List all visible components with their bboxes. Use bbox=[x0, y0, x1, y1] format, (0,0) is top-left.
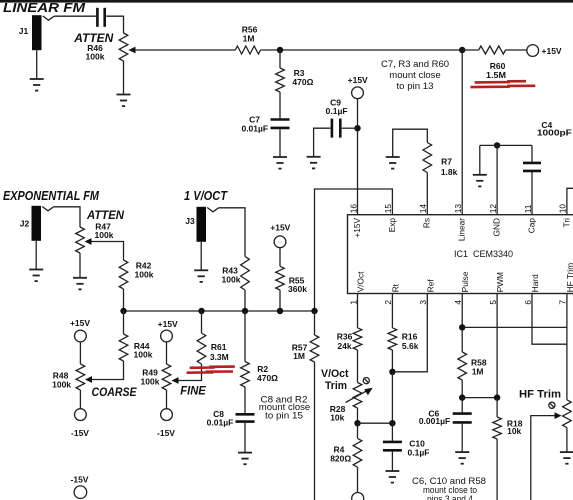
-15V terminal (floating, bottom left) bbox=[74, 486, 87, 499]
node E junction (Pulse) bbox=[459, 324, 465, 330]
label R60 value bbox=[486, 70, 506, 80]
potentiometer R47 bbox=[76, 227, 85, 253]
label R18 bbox=[507, 419, 523, 429]
svg-text:470Ω: 470Ω bbox=[257, 373, 278, 383]
pin 4 label Pulse bbox=[460, 271, 470, 292]
svg-text:0.1µF: 0.1µF bbox=[408, 447, 430, 457]
label R2 bbox=[257, 364, 268, 374]
resistor R58 bbox=[458, 352, 467, 380]
wire node B to R4 bbox=[357, 423, 359, 438]
wire R47 wiper to R42 bbox=[92, 242, 124, 261]
wire node F to node G bbox=[462, 397, 497, 399]
wire pin 12 bbox=[496, 145, 498, 214]
wire R61 to R49 wiper bbox=[179, 364, 202, 381]
pin 3 label Ref bbox=[425, 279, 435, 293]
label V/Oct Trim line 2 bbox=[325, 380, 347, 392]
wire node C to C10 bbox=[391, 423, 393, 441]
svg-text:Cap: Cap bbox=[526, 218, 536, 234]
wire R4 to -15V terminal bbox=[357, 467, 359, 492]
wire C7 to ground bbox=[279, 129, 281, 157]
svg-text:Rs: Rs bbox=[422, 218, 432, 228]
bus junction (pin15/R57) bbox=[311, 308, 317, 314]
label R57 value bbox=[293, 351, 305, 361]
svg-text:C7, R3 and R60: C7, R3 and R60 bbox=[381, 59, 449, 69]
label R28 bbox=[330, 404, 346, 414]
label +15V (R55) bbox=[270, 222, 290, 232]
label R4 value bbox=[330, 453, 351, 463]
wire pin 10 to edge bbox=[567, 188, 573, 214]
svg-text:820Ω: 820Ω bbox=[330, 453, 351, 463]
red strikethrough R61 (1) bbox=[190, 367, 235, 368]
svg-text:GND: GND bbox=[492, 218, 502, 236]
wire C4 to pin 11 bbox=[531, 172, 533, 215]
svg-text:J3: J3 bbox=[185, 216, 195, 226]
label R36 bbox=[337, 332, 353, 342]
svg-text:13: 13 bbox=[453, 204, 463, 214]
label R28 value bbox=[330, 413, 344, 423]
label R47 bbox=[95, 221, 111, 231]
pin 14 number bbox=[418, 204, 428, 214]
wire pin 6 to HF pot top bbox=[532, 294, 567, 345]
wire R43 to bus bbox=[244, 290, 246, 311]
label J3 bbox=[185, 216, 195, 226]
svg-text:100k: 100k bbox=[222, 274, 241, 284]
label R3 value bbox=[292, 77, 313, 87]
label R2 value bbox=[257, 373, 278, 383]
label C4 bbox=[541, 120, 552, 130]
label J1 bbox=[19, 26, 29, 36]
ground under J3 bbox=[194, 242, 208, 282]
svg-text:+15V: +15V bbox=[542, 46, 562, 56]
svg-text:+15V: +15V bbox=[352, 218, 362, 238]
label C8 value bbox=[207, 418, 234, 428]
annotation C7 R3 R60 line 1 bbox=[381, 59, 449, 69]
label C10 value bbox=[408, 447, 430, 457]
svg-text:10k: 10k bbox=[507, 426, 521, 436]
annotation C7 R3 R60 line 3 bbox=[397, 81, 434, 91]
-15V terminal (R49) bbox=[161, 409, 173, 421]
ground (pin 12 GND net) bbox=[473, 175, 487, 187]
wiper arrow R48 bbox=[85, 376, 92, 383]
label IC1 CEM3340 bbox=[454, 249, 513, 259]
label R61 bbox=[211, 342, 227, 352]
wire R60 left lead bbox=[462, 49, 479, 51]
wire pin 5 to node G bbox=[496, 294, 498, 398]
svg-text:V/Oct: V/Oct bbox=[356, 271, 366, 292]
resistor R42 bbox=[119, 260, 128, 289]
svg-text:7: 7 bbox=[558, 300, 568, 305]
label C8 bbox=[213, 409, 224, 419]
pin 14 label Rs bbox=[422, 218, 432, 228]
svg-text:LINEAR FM: LINEAR FM bbox=[3, 0, 86, 15]
label R44 value bbox=[134, 350, 153, 360]
svg-text:+15V: +15V bbox=[158, 319, 178, 329]
wire R16 to node D bbox=[391, 350, 393, 372]
svg-text:+15V: +15V bbox=[270, 222, 290, 232]
svg-text:14: 14 bbox=[418, 204, 428, 214]
wire J1 tip to cap bbox=[54, 15, 96, 17]
label R60 bbox=[490, 61, 506, 71]
section label 1 V/OCT bbox=[184, 188, 228, 203]
bus junction (R61) bbox=[198, 308, 204, 314]
svg-text:24k: 24k bbox=[337, 341, 351, 351]
wire R46 wiper to R56 bbox=[136, 49, 236, 51]
resistor R60 bbox=[479, 46, 506, 54]
svg-text:Linear: Linear bbox=[457, 218, 467, 241]
label R58 bbox=[471, 357, 487, 367]
svg-text:HF Trim: HF Trim bbox=[519, 389, 561, 401]
svg-text:ATTEN: ATTEN bbox=[86, 208, 124, 222]
+15V terminal (R48) bbox=[75, 330, 87, 342]
svg-text:Hard: Hard bbox=[530, 274, 540, 292]
label R36 value bbox=[337, 341, 351, 351]
svg-text:1.8k: 1.8k bbox=[441, 167, 458, 177]
label R4 bbox=[333, 445, 344, 455]
node D junction bbox=[389, 369, 395, 375]
pin 10 label Tri bbox=[561, 218, 571, 228]
HF trim wiper arrow bbox=[555, 412, 562, 419]
resistor R4 bbox=[353, 438, 362, 467]
pin 12 label GND bbox=[492, 218, 502, 236]
label R42 bbox=[136, 261, 152, 271]
resistor R18 bbox=[493, 417, 502, 439]
wire R48 to -15V bbox=[79, 390, 81, 409]
pin 2 label Rt bbox=[390, 283, 400, 292]
wire R36 to R28 bbox=[357, 350, 359, 383]
resistor R55 bbox=[276, 266, 285, 290]
svg-text:0.01µF: 0.01µF bbox=[207, 418, 234, 428]
wire pin 3 to node D bbox=[392, 294, 427, 372]
pin 2 number bbox=[383, 300, 393, 305]
label R43 value bbox=[222, 274, 241, 284]
wire pin 1 to R36 bbox=[357, 294, 359, 328]
svg-text:R7: R7 bbox=[441, 156, 452, 166]
svg-text:Pulse: Pulse bbox=[460, 271, 470, 292]
pin 6 label Hard bbox=[530, 274, 540, 292]
node C junction bbox=[389, 420, 395, 426]
wire C9 left lead to ground bbox=[314, 128, 331, 156]
annotation C8 R2 line 2 bbox=[259, 402, 311, 412]
svg-text:FINE: FINE bbox=[180, 383, 206, 397]
label R3 bbox=[294, 68, 305, 78]
label R46 value bbox=[86, 51, 105, 61]
resistor R56 bbox=[235, 46, 260, 54]
label +15V (pin16) bbox=[348, 75, 368, 85]
wire C10 to ground bbox=[391, 451, 393, 470]
svg-text:EXPONENTIAL FM: EXPONENTIAL FM bbox=[3, 188, 100, 203]
wire node B to node C bbox=[358, 422, 393, 424]
trimmer HF Trim bbox=[563, 400, 572, 428]
wire node G to R18 bbox=[496, 398, 498, 417]
label R56 value bbox=[243, 34, 255, 44]
resistor R61 bbox=[197, 333, 206, 364]
svg-text:0.1µF: 0.1µF bbox=[326, 106, 348, 116]
wire HF wiper off image bottom bbox=[531, 416, 555, 500]
wire R2 to C8 bbox=[244, 387, 246, 413]
svg-text:Ref: Ref bbox=[425, 279, 435, 293]
bus junction (R55) bbox=[277, 308, 283, 314]
label R61 value bbox=[210, 352, 229, 362]
svg-text:Exp: Exp bbox=[387, 218, 397, 233]
ground under C6 bbox=[455, 452, 469, 464]
pin 13 number bbox=[453, 204, 463, 214]
wire right end down to C4 bbox=[531, 145, 533, 161]
label C10 bbox=[409, 439, 425, 449]
svg-text:+15V: +15V bbox=[70, 318, 90, 328]
junction dot C9 node bbox=[354, 125, 360, 131]
label -15V (floating) bbox=[71, 474, 89, 484]
svg-text:J1: J1 bbox=[19, 26, 29, 36]
section label LINEAR FM bbox=[3, 0, 86, 15]
ground under R46 bbox=[117, 95, 131, 107]
wire bus to R2 bbox=[244, 311, 246, 362]
svg-text:0.001µF: 0.001µF bbox=[419, 416, 450, 426]
wiper arrow R49 bbox=[172, 377, 179, 384]
node B junction bbox=[354, 420, 360, 426]
capacitor C10 bbox=[383, 442, 402, 450]
node G junction bbox=[494, 394, 500, 400]
bus junction (R43/R2) bbox=[242, 308, 248, 314]
-15V terminal (R48) bbox=[75, 409, 87, 421]
pin 7 label HF Trim bbox=[565, 263, 573, 293]
annotation C6 C10 R58 line 3 bbox=[427, 494, 473, 500]
wire pin 7 down bbox=[566, 294, 568, 400]
HF trim adjust symbol bbox=[549, 402, 555, 408]
wire R49 to -15V bbox=[166, 390, 168, 409]
capacitor C7 bbox=[271, 120, 290, 128]
resistor R44 bbox=[119, 334, 128, 361]
pin 11 number bbox=[523, 204, 533, 213]
svg-text:5.6k: 5.6k bbox=[402, 341, 419, 351]
svg-text:360k: 360k bbox=[288, 284, 307, 294]
ground under R47 bbox=[73, 278, 87, 290]
pin 16 number bbox=[348, 204, 358, 214]
summing bus wire bbox=[124, 310, 315, 312]
pin 1 number bbox=[348, 300, 358, 305]
label ATTEN (R46) bbox=[73, 31, 113, 45]
svg-text:1000pF: 1000pF bbox=[537, 128, 572, 138]
wire R3 to C7 bbox=[279, 92, 281, 118]
label +15V (R60) bbox=[542, 46, 562, 56]
svg-text:1: 1 bbox=[348, 300, 358, 305]
pin 15 number bbox=[383, 204, 393, 214]
wire J3 tip to R43 bbox=[219, 208, 245, 257]
ground under C7 bbox=[273, 157, 287, 169]
wire R42 to bus bbox=[123, 289, 125, 311]
ground under HF pot bbox=[560, 452, 573, 464]
wire node E to R58 bbox=[461, 327, 463, 352]
svg-text:Tri: Tri bbox=[561, 218, 571, 228]
resistor R7 bbox=[423, 143, 432, 173]
label R16 value bbox=[402, 341, 419, 351]
label R42 value bbox=[135, 269, 154, 279]
svg-text:6: 6 bbox=[523, 300, 533, 305]
wire R28 to node B bbox=[357, 408, 359, 423]
label R56 bbox=[242, 24, 258, 34]
wire pin12 node horizontal bbox=[480, 144, 532, 146]
pin 11 label Cap bbox=[526, 218, 536, 234]
ground under J2 bbox=[29, 241, 43, 281]
wire +15V to pin 16 bbox=[357, 99, 359, 215]
junction dot pin13 node bbox=[459, 47, 465, 53]
label R55 bbox=[289, 275, 305, 285]
svg-text:100k: 100k bbox=[135, 269, 154, 279]
svg-text:100k: 100k bbox=[52, 379, 71, 389]
svg-text:to pin 13: to pin 13 bbox=[397, 81, 434, 91]
wire +15V to R49 bbox=[166, 342, 168, 364]
svg-text:to pin 15: to pin 15 bbox=[265, 410, 303, 420]
svg-text:100k: 100k bbox=[95, 230, 114, 240]
label C4 value bbox=[537, 128, 572, 138]
wire left end down to ground bbox=[479, 145, 481, 174]
wire pulse output bbox=[462, 326, 567, 328]
svg-text:470Ω: 470Ω bbox=[292, 77, 313, 87]
label +15V (R49) bbox=[158, 319, 178, 329]
wire bus to R44 bbox=[123, 311, 125, 334]
pin 4 number bbox=[453, 300, 463, 305]
svg-text:1.5M: 1.5M bbox=[486, 70, 506, 80]
label -15V (R49) bbox=[157, 428, 175, 438]
pin 15 label Exp bbox=[387, 218, 397, 233]
svg-text:+15V: +15V bbox=[348, 75, 368, 85]
wire R44 to R48 wiper bbox=[92, 361, 124, 380]
wire R7 to pin 14 bbox=[426, 173, 428, 215]
ground under C9 bbox=[307, 157, 321, 169]
label R44 bbox=[134, 341, 150, 351]
wire R18 off image bottom bbox=[496, 439, 498, 500]
wire C6 to ground bbox=[461, 423, 463, 452]
svg-text:16: 16 bbox=[348, 204, 358, 214]
label R43 bbox=[222, 265, 238, 275]
label J2 bbox=[20, 218, 30, 228]
+15V terminal (R60) bbox=[527, 45, 539, 57]
bus junction (R42/R44) bbox=[120, 308, 126, 314]
svg-text:-15V: -15V bbox=[71, 474, 89, 484]
pin 10 number bbox=[558, 204, 568, 214]
wire pin 15 to V/Oct summing node bbox=[315, 189, 393, 311]
jack J1 bbox=[32, 15, 54, 50]
capacitor C4 bbox=[523, 163, 541, 171]
label R48 value bbox=[52, 379, 71, 389]
+15V terminal (pin16) bbox=[352, 87, 364, 99]
node A junction (pin13 net) bbox=[277, 47, 283, 53]
capacitor C9 bbox=[332, 119, 340, 138]
node F junction bbox=[459, 394, 465, 400]
label C6 value bbox=[419, 416, 450, 426]
label HF Trim bbox=[519, 389, 561, 401]
capacitor C5 (linear FM input) bbox=[97, 8, 104, 27]
pin 5 number bbox=[488, 300, 498, 305]
label C7 bbox=[249, 115, 260, 125]
svg-text:3.3M: 3.3M bbox=[210, 352, 229, 362]
svg-text:100k: 100k bbox=[86, 51, 105, 61]
wire node A down to R3 bbox=[279, 50, 281, 68]
svg-text:100k: 100k bbox=[134, 350, 153, 360]
label R55 value bbox=[288, 284, 307, 294]
svg-text:J2: J2 bbox=[20, 218, 30, 228]
trimmer R28 (V/Oct Trim) bbox=[353, 383, 362, 409]
ground for R7 bbox=[386, 157, 400, 169]
wire pin 2 to R16 bbox=[391, 294, 393, 328]
annotation C6 C10 R58 line 1 bbox=[412, 476, 486, 486]
+15V terminal (R49) bbox=[161, 330, 173, 342]
svg-text:5: 5 bbox=[488, 300, 498, 305]
svg-text:1M: 1M bbox=[472, 367, 484, 377]
trimmer R28 adjust symbol bbox=[363, 378, 369, 384]
wire +15V to R55 bbox=[279, 248, 281, 267]
label COARSE bbox=[92, 385, 138, 399]
svg-text:1 V/OCT: 1 V/OCT bbox=[184, 188, 228, 203]
jack J3 bbox=[197, 207, 219, 242]
wire pin 4 to node E bbox=[461, 294, 463, 328]
wire HF pot to ground bbox=[566, 428, 568, 452]
label R16 bbox=[402, 332, 418, 342]
svg-text:Rt: Rt bbox=[390, 283, 400, 292]
wire ground up and over to R7 bbox=[393, 129, 428, 157]
ground under C10 bbox=[385, 471, 399, 483]
label R7 value bbox=[441, 167, 458, 177]
svg-text:1M: 1M bbox=[243, 34, 255, 44]
label R49 bbox=[142, 367, 158, 377]
section label EXPONENTIAL FM bbox=[3, 188, 100, 203]
label R58 value bbox=[472, 367, 484, 377]
label +15V (R48) bbox=[70, 318, 90, 328]
label C7 value bbox=[241, 123, 268, 133]
wire R57 bottom off image bbox=[314, 362, 316, 500]
label R49 value bbox=[141, 376, 160, 386]
wire J2 tip to pot R47 bbox=[54, 207, 80, 227]
label C9 value bbox=[326, 106, 348, 116]
pin 1 label V/Oct bbox=[356, 271, 366, 292]
wire node A down to pin 13 bbox=[461, 50, 463, 215]
label -15V (R48) bbox=[71, 428, 89, 438]
wire R47 bottom to ground bbox=[79, 253, 81, 278]
top border bar bbox=[0, 0, 573, 3]
label R7 bbox=[441, 156, 452, 166]
wire R55 to bus bbox=[279, 290, 281, 311]
svg-text:10: 10 bbox=[558, 204, 568, 214]
-15V terminal (R4, cut off) bbox=[352, 493, 364, 500]
resistor R16 bbox=[388, 328, 397, 350]
annotation C7 R3 R60 line 2 bbox=[389, 70, 441, 80]
label V/Oct Trim line 1 bbox=[321, 368, 349, 380]
capacitor C8 bbox=[236, 414, 255, 421]
resistor R3 bbox=[276, 68, 285, 92]
red strikethrough R61 (2) bbox=[187, 372, 233, 373]
svg-text:3: 3 bbox=[418, 300, 428, 305]
wire node F to C6 bbox=[461, 398, 463, 413]
svg-text:0.01µF: 0.01µF bbox=[241, 123, 268, 133]
label R48 bbox=[53, 371, 69, 381]
svg-text:mount close: mount close bbox=[389, 70, 441, 80]
resistor R43 bbox=[241, 257, 250, 291]
svg-text:10k: 10k bbox=[330, 413, 344, 423]
resistor R57 bbox=[310, 311, 319, 362]
svg-text:2: 2 bbox=[383, 300, 393, 305]
wire R56 to node A bbox=[261, 49, 463, 51]
svg-text:1M: 1M bbox=[293, 351, 305, 361]
trimmer R28 arrow bbox=[346, 388, 373, 403]
wire C9 right lead bbox=[342, 127, 358, 129]
pin 3 number bbox=[418, 300, 428, 305]
annotation C6 C10 R58 line 2 bbox=[423, 485, 477, 495]
jack J2 bbox=[32, 206, 54, 241]
wire +15V to R48 bbox=[79, 342, 81, 364]
capacitor C6 bbox=[453, 414, 472, 423]
potentiometer R49 bbox=[162, 364, 171, 390]
pin 12 number bbox=[488, 204, 498, 214]
wiper arrow R47 bbox=[85, 238, 92, 245]
